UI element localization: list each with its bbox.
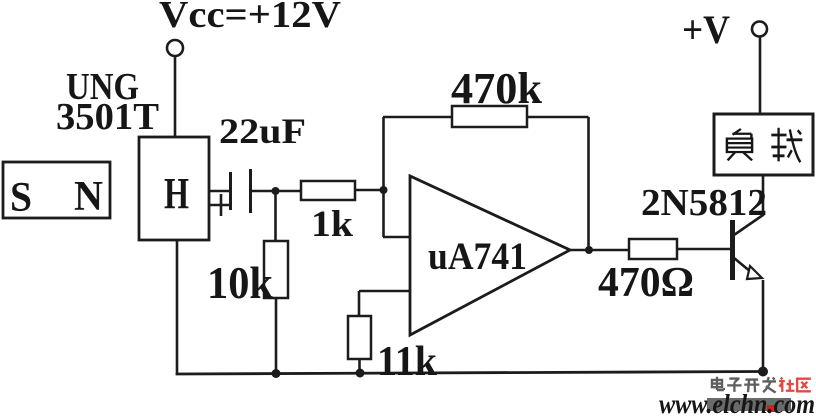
svg-text:S: S [10, 175, 32, 221]
svg-text:uA741: uA741 [428, 235, 527, 278]
svg-text:1k: 1k [311, 204, 353, 245]
svg-text:+V: +V [682, 7, 730, 52]
svg-text:22uF: 22uF [219, 111, 306, 151]
svg-text:470k: 470k [451, 64, 543, 113]
svg-text:11k: 11k [377, 339, 438, 385]
svg-text:www.elchn.com: www.elchn.com [659, 389, 815, 416]
svg-text:2N5812: 2N5812 [641, 182, 767, 224]
svg-text:470Ω: 470Ω [598, 260, 694, 306]
svg-text:3501T: 3501T [56, 96, 159, 138]
svg-text:Vcc=+12V: Vcc=+12V [159, 0, 342, 36]
svg-text:N: N [74, 174, 103, 220]
svg-text:10k: 10k [207, 257, 273, 308]
svg-text:H: H [164, 169, 189, 218]
